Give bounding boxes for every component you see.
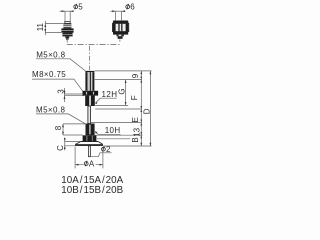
svg-text:M8×0.75: M8×0.75 xyxy=(32,70,66,79)
pin phi2 xyxy=(88,146,90,157)
dimension chain line 9 F E 13 B xyxy=(140,71,142,146)
knob K6 bottom flange xyxy=(113,32,128,35)
label phi2 xyxy=(102,146,106,152)
arrows chain y79.6 xyxy=(140,77,142,80)
centerline below knob K5 xyxy=(66,40,68,43)
arrow 8 top xyxy=(62,124,64,127)
label phi6 xyxy=(126,4,130,9)
extension line right y71 xyxy=(95,70,152,72)
arrow phi5 left xyxy=(62,10,65,12)
svg-text:9: 9 xyxy=(131,73,140,78)
arrow 11 bottom xyxy=(44,29,46,32)
leader 12H xyxy=(95,98,117,103)
arrow phi6 right xyxy=(122,10,125,12)
leader M5x0.8 upper xyxy=(36,59,85,71)
extension lines phi6 xyxy=(116,11,122,20)
extension lines C xyxy=(65,141,81,145)
svg-text:E: E xyxy=(131,117,140,122)
dimension line 3 xyxy=(64,88,66,102)
plunger pin middle xyxy=(88,106,91,124)
extension lines 8 xyxy=(63,124,86,135)
plunger collar hex 12H xyxy=(83,91,99,96)
dimension line D xyxy=(149,71,151,146)
svg-text:A: A xyxy=(89,159,95,168)
knob K6 top flange xyxy=(113,21,128,24)
leader M5x0.8 lower xyxy=(36,114,85,124)
vertical dash-dot centerline main xyxy=(88,46,90,71)
svg-text:8: 8 xyxy=(54,125,63,130)
foot skirt sides xyxy=(75,142,103,145)
extension lines phi5 xyxy=(65,11,70,22)
knob K5 tip xyxy=(66,38,69,40)
extension line right y138.8 xyxy=(97,138,130,140)
arrows chain y109 xyxy=(140,106,142,109)
svg-text:10B/15B/20B: 10B/15B/20B xyxy=(61,185,123,196)
arrow chain top xyxy=(140,71,142,74)
knob K5 boss xyxy=(65,22,70,24)
arrow 3 upper xyxy=(64,91,66,94)
plunger lower thread M5 xyxy=(86,124,95,136)
svg-text:6: 6 xyxy=(130,3,135,12)
dimension line 8 xyxy=(62,124,64,135)
extension line bottom right y146 xyxy=(103,145,151,147)
foot bottom band xyxy=(75,144,103,146)
hex nut 10H xyxy=(83,135,97,141)
arrow G bottom xyxy=(125,102,127,105)
extension line right y79.6 xyxy=(95,79,142,81)
arrow 8 bottom xyxy=(62,132,64,135)
arrow phi6 left xyxy=(112,10,115,12)
dimension line C xyxy=(64,137,66,150)
knob K5 lower section xyxy=(62,33,72,37)
extension line right y109 xyxy=(95,108,142,110)
centerline below knob K6 xyxy=(119,39,121,41)
foot top face xyxy=(81,141,98,143)
arrow phiA left xyxy=(75,164,78,166)
arrow chain bottom xyxy=(140,143,142,146)
dimension line G xyxy=(125,80,127,106)
arrow G top xyxy=(125,80,127,83)
arrow D bottom xyxy=(150,143,152,146)
dimension line 11 xyxy=(44,21,46,35)
horizontal dash-dot centerline xyxy=(67,43,120,45)
svg-text:M5×0.8: M5×0.8 xyxy=(36,105,65,114)
svg-text:G: G xyxy=(117,88,126,94)
arrows chain y122.5 xyxy=(140,120,142,123)
extension lines 3 xyxy=(65,94,85,96)
leader phi2 xyxy=(91,153,112,157)
svg-text:C: C xyxy=(56,145,65,151)
dimension line phi6 xyxy=(110,10,125,12)
knob K5 stem xyxy=(65,36,69,38)
arrow 3 lower xyxy=(64,96,66,99)
label phi5 xyxy=(74,4,78,9)
svg-text:13: 13 xyxy=(132,127,141,136)
svg-text:10H: 10H xyxy=(105,126,121,135)
arrow phiA right xyxy=(100,164,103,166)
knob K5 flange xyxy=(61,28,73,32)
plunger upper shaft M5 xyxy=(85,72,87,91)
extension line right y105.4 xyxy=(95,104,128,106)
knob K6 knurled body xyxy=(113,23,129,31)
leader 10H xyxy=(95,131,121,134)
arrow D top xyxy=(150,71,152,74)
arrow C upper xyxy=(64,138,66,141)
extension lines phiA xyxy=(75,147,103,169)
svg-text:B: B xyxy=(131,137,140,142)
svg-text:5: 5 xyxy=(78,3,83,12)
plunger top face xyxy=(85,71,94,72)
svg-text:D: D xyxy=(143,108,152,114)
svg-text:M5×0.8: M5×0.8 xyxy=(36,50,65,59)
knob K5 upper ridged section xyxy=(63,23,71,28)
extension line right y135.2 xyxy=(95,134,143,136)
arrow 11 top xyxy=(44,24,46,27)
svg-text:11: 11 xyxy=(36,22,45,31)
dimension line phiA xyxy=(75,164,103,166)
extension line right y122.5 xyxy=(91,122,142,124)
plunger body M8 xyxy=(85,96,95,106)
arrow phi5 right xyxy=(70,10,73,12)
label phiA xyxy=(84,159,96,167)
arrow C lower xyxy=(64,146,66,149)
extension lines 11 xyxy=(45,24,63,33)
arrows chain y135.2 xyxy=(140,132,142,135)
knob K6 stem xyxy=(116,35,124,37)
svg-text:F: F xyxy=(130,95,139,100)
knob K6 tip xyxy=(118,36,123,39)
dimension line phi5 xyxy=(60,10,74,12)
leader M8x0.75 xyxy=(32,79,83,91)
